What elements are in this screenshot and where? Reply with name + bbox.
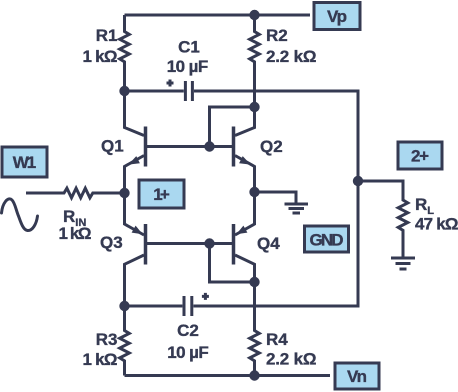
connector box Vn (335, 363, 379, 389)
ground symbol under RL (391, 258, 415, 269)
node R3-C2 (119, 301, 129, 311)
svg-text:1 kΩ: 1 kΩ (83, 47, 118, 66)
connector box GND (305, 226, 349, 252)
node Q2 collector (249, 102, 259, 112)
svg-text:Vn: Vn (347, 367, 367, 386)
svg-text:2+: 2+ (411, 147, 429, 166)
connector box W1 (2, 147, 47, 177)
svg-text:Q4: Q4 (257, 234, 280, 253)
svg-text:Vp: Vp (327, 7, 347, 26)
svg-text:1 kΩ: 1 kΩ (59, 224, 92, 243)
svg-text:10 µF: 10 µF (167, 57, 209, 76)
transistor Q4 collector (235, 255, 255, 282)
node Q4 collector (249, 277, 259, 287)
resistor R4 (250, 282, 260, 376)
connector box 1+ (139, 180, 184, 208)
svg-text:Q3: Q3 (100, 233, 123, 252)
transistor Q2 bar (232, 127, 236, 167)
transistor Q1 emitter arrow (128, 156, 140, 165)
svg-text:C1: C1 (178, 38, 200, 57)
connector box Vp (314, 3, 360, 30)
svg-text:W1: W1 (13, 153, 37, 172)
node input 1+ (119, 188, 129, 198)
wire C1 right to right column down to C2 right (193, 91, 358, 306)
wire input with resistor RIN (26, 188, 125, 198)
svg-text:C2: C2 (177, 321, 199, 340)
wire emitter node to ground (255, 192, 297, 203)
capacitor C2 plates (184, 296, 192, 316)
transistor Q1 bar (144, 127, 148, 167)
node bottom base line (204, 238, 214, 248)
transistor Q4 emitter (235, 192, 255, 235)
wire top rail to Vp (125, 14, 311, 17)
svg-text:Q1: Q1 (101, 137, 124, 156)
node top base line (204, 141, 214, 151)
sine wave source symbol (2, 199, 38, 231)
wire top base line Q1-Q2 (147, 145, 232, 148)
svg-text:2.2 kΩ: 2.2 kΩ (266, 47, 317, 66)
node top rail R2 (249, 10, 259, 20)
transistor Q1 collector (125, 91, 145, 136)
capacitor C2 plus sign (202, 293, 209, 300)
svg-text:10 µF: 10 µF (167, 343, 209, 362)
capacitor C1 plates (185, 81, 192, 101)
wire C2 left (125, 305, 183, 308)
transistor Q3 emitter arrow (132, 226, 143, 235)
svg-text:R2: R2 (266, 26, 288, 45)
svg-text:GND: GND (310, 231, 344, 250)
transistor Q4 emitter arrow (236, 226, 247, 235)
svg-text:2.2 kΩ: 2.2 kΩ (266, 350, 317, 369)
node emitter ground (249, 187, 259, 197)
transistor Q2 collector (235, 107, 255, 136)
node output 2+ (353, 176, 363, 186)
svg-text:R4: R4 (266, 330, 288, 349)
svg-text:Q2: Q2 (260, 137, 283, 156)
ground symbol mid (285, 204, 309, 213)
svg-text:47 kΩ: 47 kΩ (415, 215, 458, 234)
resistor R2 (250, 15, 260, 107)
transistor Q3 emitter (125, 193, 145, 235)
transistor Q3 bar (144, 224, 148, 265)
wire Q4 base-collector jog (210, 244, 255, 283)
capacitor C1 plus sign (167, 80, 174, 87)
svg-text:R3: R3 (96, 330, 118, 349)
node R1-C1 (119, 86, 129, 96)
svg-text:R1: R1 (96, 26, 118, 45)
svg-text:1 kΩ: 1 kΩ (83, 350, 118, 369)
transistor Q2 emitter arrow (239, 156, 251, 165)
transistor Q2 emitter (235, 156, 255, 193)
wire Q2 base-collector jog (210, 107, 255, 147)
wire bottom base line Q3-Q4 (147, 242, 232, 245)
node bottom rail R4 (249, 370, 259, 380)
wire bottom rail to Vn (125, 374, 331, 377)
svg-text:1+: 1+ (153, 185, 170, 204)
resistor R1 (120, 15, 130, 91)
wire C1 left (125, 90, 184, 93)
transistor Q1 emitter (125, 156, 145, 194)
transistor Q3 collector (125, 255, 145, 306)
wire output node to RL and resistor RL (358, 181, 408, 257)
connector box 2+ (398, 142, 442, 169)
transistor Q4 bar (232, 224, 236, 265)
resistor R3 (120, 306, 130, 376)
